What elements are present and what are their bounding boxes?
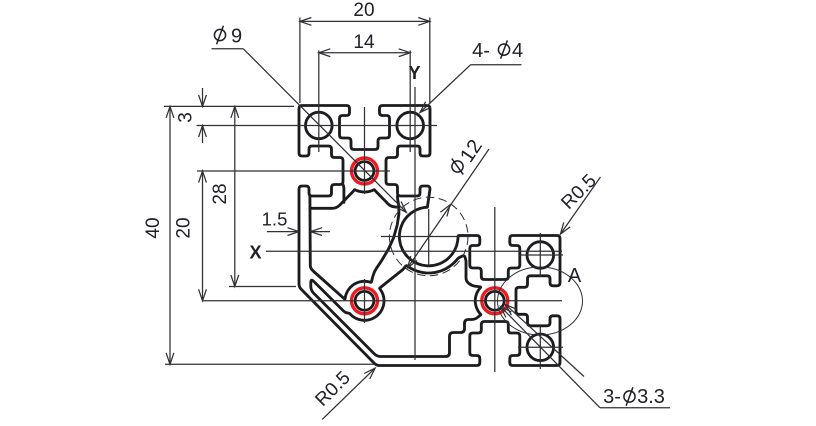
X axis line	[266, 250, 562, 252]
hole 4-dia4 top-left	[306, 112, 333, 139]
hole 4-dia4 arm upper	[527, 242, 554, 269]
centerline top module vertical	[364, 107, 366, 194]
svg-text:3: 3	[176, 112, 197, 123]
Y axis line	[414, 87, 416, 360]
dimension 40 left	[164, 105, 294, 107]
hole dia3.3 #1 red-marked	[352, 158, 378, 184]
leader 3-dia3.3	[501, 307, 600, 408]
centerline bore vertical	[428, 209, 430, 266]
centerline red hole 2 vertical	[364, 279, 366, 323]
svg-text:40: 40	[143, 217, 164, 238]
slot chamber wall stub	[342, 185, 346, 202]
svg-text:28: 28	[210, 183, 231, 204]
label phi12 symbol	[447, 157, 469, 177]
centerline red holes row horizontal	[203, 300, 562, 302]
hole dia3.3 #2 red-marked	[352, 288, 378, 314]
svg-text:20: 20	[174, 217, 195, 238]
hole 4-dia4 arm lower	[527, 334, 554, 361]
centerline hole top-right vertical	[409, 51, 411, 153]
centerline arm hole lower vertical	[539, 326, 541, 369]
dashed circle dia12	[389, 197, 468, 276]
inner cavity lower hollow core	[311, 256, 481, 357]
dimension 14	[319, 52, 410, 54]
dimension 1.5 wall thickness	[267, 231, 299, 233]
dimension phi12	[408, 149, 489, 268]
inner cavity upper-left shoulder dome	[310, 190, 397, 209]
centerline right arm vertical	[494, 207, 496, 372]
label phi9 symbol	[214, 26, 225, 44]
svg-text:4-: 4-	[472, 40, 490, 62]
centerline arm hole lower horizontal	[518, 346, 563, 348]
detail view circle A	[498, 267, 583, 335]
centerline row of top holes	[197, 125, 438, 127]
centerline red hole 1 horizontal / dim-20 extension	[197, 170, 390, 172]
inner cavity upper-left wall and web	[310, 196, 399, 299]
svg-text:9: 9	[231, 26, 242, 48]
leader R0.5 arm corner	[560, 177, 600, 234]
dimension 20 top	[299, 18, 301, 104]
svg-text:3.3: 3.3	[637, 386, 665, 408]
svg-text:14: 14	[353, 32, 375, 53]
centerline bore horizontal	[381, 236, 471, 238]
leader R0.5 chamfer tip	[322, 368, 375, 419]
svg-text:1.5: 1.5	[262, 209, 288, 230]
hole dia3.3 #3 red-marked	[482, 288, 508, 314]
dimension 3 left	[202, 88, 204, 106]
svg-text:20: 20	[353, 0, 374, 21]
dimension 20 left slot pitch	[202, 171, 204, 301]
svg-text:X: X	[249, 243, 261, 263]
centerline hole top-left vertical	[318, 51, 320, 153]
svg-text:A: A	[568, 265, 582, 287]
svg-text:4: 4	[512, 40, 523, 62]
profile outer outline with T-slots, 45-deg chamfer and open bore	[299, 106, 560, 366]
svg-text:3-: 3-	[603, 386, 621, 408]
svg-text:Y: Y	[408, 63, 420, 83]
leader phi9	[212, 48, 244, 50]
dimension 28 left	[229, 286, 296, 288]
hole 4-dia4 top-right	[397, 112, 424, 139]
centerline arm hole upper horizontal	[519, 254, 563, 256]
centerline arm hole upper vertical	[539, 233, 541, 277]
leader 4-dia4	[471, 64, 522, 66]
